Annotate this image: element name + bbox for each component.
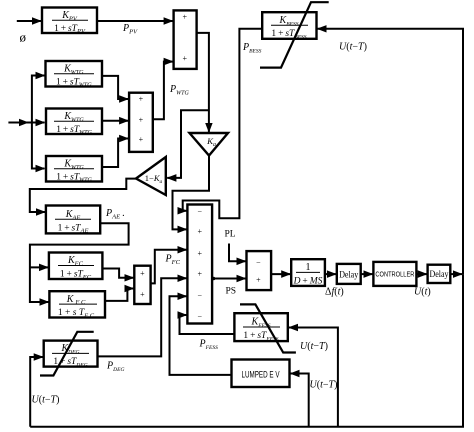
wire: PS output from central summer S4 to summer S5 <box>212 278 246 280</box>
wire: WTG2 output to summer S2 <box>102 120 128 122</box>
svg-text:Delay: Delay <box>339 270 358 280</box>
wire: P_BESS from BESS block down into central summer S4 top (-) <box>183 29 263 219</box>
svg-text:+: + <box>197 270 202 279</box>
svg-text:ø: ø <box>20 30 27 45</box>
svg-text:+: + <box>139 95 144 104</box>
summer S3 (FC sum) <box>134 266 150 304</box>
svg-text:+: + <box>140 269 145 278</box>
block FESS transfer function K_FESS/(1+sT_FESS) with saturation <box>234 304 296 352</box>
summer S2 (three WTG) <box>129 93 153 152</box>
wire: P_DEG from DEG block up to central summer S4 (+) <box>98 278 187 356</box>
wire: delayed control up to LUMPED EV input <box>291 374 309 427</box>
svg-text:U(t): U(t) <box>414 287 431 298</box>
svg-text:+: + <box>197 249 202 258</box>
gain Ka (triangle pointing down) <box>190 133 229 156</box>
svg-text:+: + <box>197 227 202 236</box>
wire: P_FC from summer S3 to central summer S4 <box>151 250 187 284</box>
wire: LUMPED EV output to central summer S4 (-) <box>170 296 232 375</box>
svg-text:PL: PL <box>225 230 236 240</box>
svg-text:+: + <box>256 276 261 285</box>
block system 1/(D+MS) <box>291 259 325 286</box>
wire: PL into summer S5 (-) <box>229 244 246 262</box>
svg-text:+: + <box>139 135 144 144</box>
wire: branch from S1 output to gain 1-Ka input <box>167 110 209 178</box>
block CONTROLLER <box>373 262 416 286</box>
svg-text:+: + <box>183 54 188 63</box>
wire: FC1 output to summer S3 <box>102 269 133 278</box>
wire: P_WTG from summer S2 to summer S1 <box>153 62 173 120</box>
svg-text:−: − <box>197 313 202 322</box>
svg-text:U(t−T): U(t−T) <box>339 42 367 53</box>
wire: summer S1 output down to gain Ka <box>197 33 209 132</box>
wire: WTG common input <box>8 76 44 169</box>
summer S1 (PV + WTG) <box>174 10 197 69</box>
wire: gain 1-Ka output to AE block <box>30 179 136 212</box>
wire: WTG3 output to summer S2 <box>102 139 128 168</box>
block BESS transfer function K_BESS/(1+sT_BESS) with saturation <box>260 2 329 67</box>
wire: delayed control up to FESS input <box>289 328 338 427</box>
svg-text:+: + <box>140 290 145 299</box>
gain 1-Ka (triangle pointing left) <box>136 157 166 195</box>
wire: Delay2 output U(t) to feedback line <box>450 273 462 275</box>
svg-text:U(t−T): U(t−T) <box>300 341 328 352</box>
wire: Delay1 to CONTROLLER <box>361 273 373 275</box>
block WTG1 transfer function K_WTG/(1+sT_WTG) <box>46 61 103 89</box>
block LUMPED E V <box>232 360 290 388</box>
svg-text:U(t−T): U(t−T) <box>32 395 60 406</box>
block FC2 transfer function K_FC/(1+sT_FC) <box>49 291 105 319</box>
svg-text:+: + <box>183 13 188 22</box>
svg-text:CONTROLLER: CONTROLLER <box>375 270 414 279</box>
svg-text:D + MS: D + MS <box>293 277 323 287</box>
wire: system block to Delay1 <box>325 273 336 275</box>
svg-text:Delay: Delay <box>430 269 449 279</box>
block Delay2 <box>428 265 451 283</box>
block Delay1 <box>337 264 361 284</box>
wire: P_FESS from FESS block to central summer S4 (-) <box>180 315 235 334</box>
svg-text:+: + <box>139 116 144 125</box>
summer S4 (central power balance) <box>187 205 212 324</box>
svg-text:−: − <box>197 291 202 300</box>
block FC1 transfer function K_FC/(1+sT_FC) <box>49 253 103 281</box>
wire: delayed control to DEG input <box>30 357 43 427</box>
wire: AE output down to FC bus feeding FC1 and FC2 <box>30 223 129 302</box>
summer S5 (PS - PL) <box>247 251 272 290</box>
block DEG transfer function K_DEG/(1+sT_DEG) with saturation <box>40 332 98 376</box>
block WTG3 transfer function K_WTG/(1+sT_WTG) <box>46 156 102 184</box>
wire: CONTROLLER to Delay2 <box>416 273 426 275</box>
wire: WTG1 output to summer S2 <box>102 76 128 99</box>
svg-text:1: 1 <box>306 262 311 273</box>
svg-text:Δf(t): Δf(t) <box>325 287 344 298</box>
wire: P_PV from PV block to summer S1 <box>97 20 173 22</box>
svg-text:U(t−T): U(t−T) <box>310 380 338 391</box>
block AE transfer function K_AE/(1+sT_AE) <box>46 206 100 235</box>
block PV transfer function K_PV/(1+sT_PV) <box>42 8 97 36</box>
wire: FC2 output to summer S3 <box>105 289 134 301</box>
svg-text:LUMPED E V: LUMPED E V <box>242 370 280 380</box>
wire: summer S5 to system block <box>271 273 290 275</box>
svg-text:PS: PS <box>226 287 237 297</box>
block WTG2 transfer function K_WTG/(1+sT_WTG) <box>46 109 102 137</box>
wire: gain Ka output to central summer S4 (+) <box>173 156 210 230</box>
svg-text:−: − <box>197 208 202 217</box>
wire: input to PV block <box>17 20 41 22</box>
svg-text:−: − <box>256 259 261 268</box>
